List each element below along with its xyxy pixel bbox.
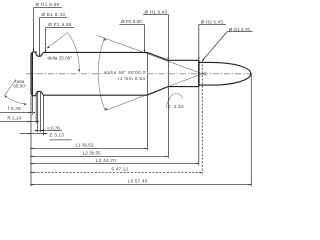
svg-text:Ø E1 8.43: Ø E1 8.43 [42, 12, 66, 17]
svg-text:L2 39.55: L2 39.55 [83, 151, 101, 156]
svg-text:r2 2.54: r2 2.54 [166, 104, 184, 109]
svg-text:L1 36.52: L1 36.52 [76, 142, 94, 147]
svg-text:S 47.12: S 47.12 [111, 167, 128, 172]
svg-text:Ø H1 6.43: Ø H1 6.43 [145, 10, 168, 15]
svg-text:Ø P2 9.00: Ø P2 9.00 [121, 19, 142, 24]
svg-text:E 3,13: E 3,13 [50, 132, 65, 137]
svg-text:35.00°: 35.00° [13, 83, 26, 88]
svg-text:R 1,14: R 1,14 [7, 115, 21, 120]
svg-text:Ø G1 5.70: Ø G1 5.70 [229, 27, 251, 32]
svg-text:L3 44.70: L3 44.70 [96, 158, 116, 163]
svg-text:f 0,45: f 0,45 [8, 106, 22, 111]
svg-text:delta 25.00°: delta 25.00° [48, 56, 73, 61]
svg-text:Ø R1 9.60: Ø R1 9.60 [36, 2, 60, 7]
svg-text:L6 57.40: L6 57.40 [128, 178, 148, 183]
svg-text:alpha 46° 00'00.0': alpha 46° 00'00.0' [104, 70, 147, 75]
svg-text:e 0,76: e 0,76 [47, 125, 60, 130]
svg-text:Ø H2 6.43: Ø H2 6.43 [201, 20, 224, 25]
svg-text:Ø P1 9.58: Ø P1 9.58 [48, 22, 72, 27]
svg-text:r1 min 0.64: r1 min 0.64 [118, 76, 145, 81]
